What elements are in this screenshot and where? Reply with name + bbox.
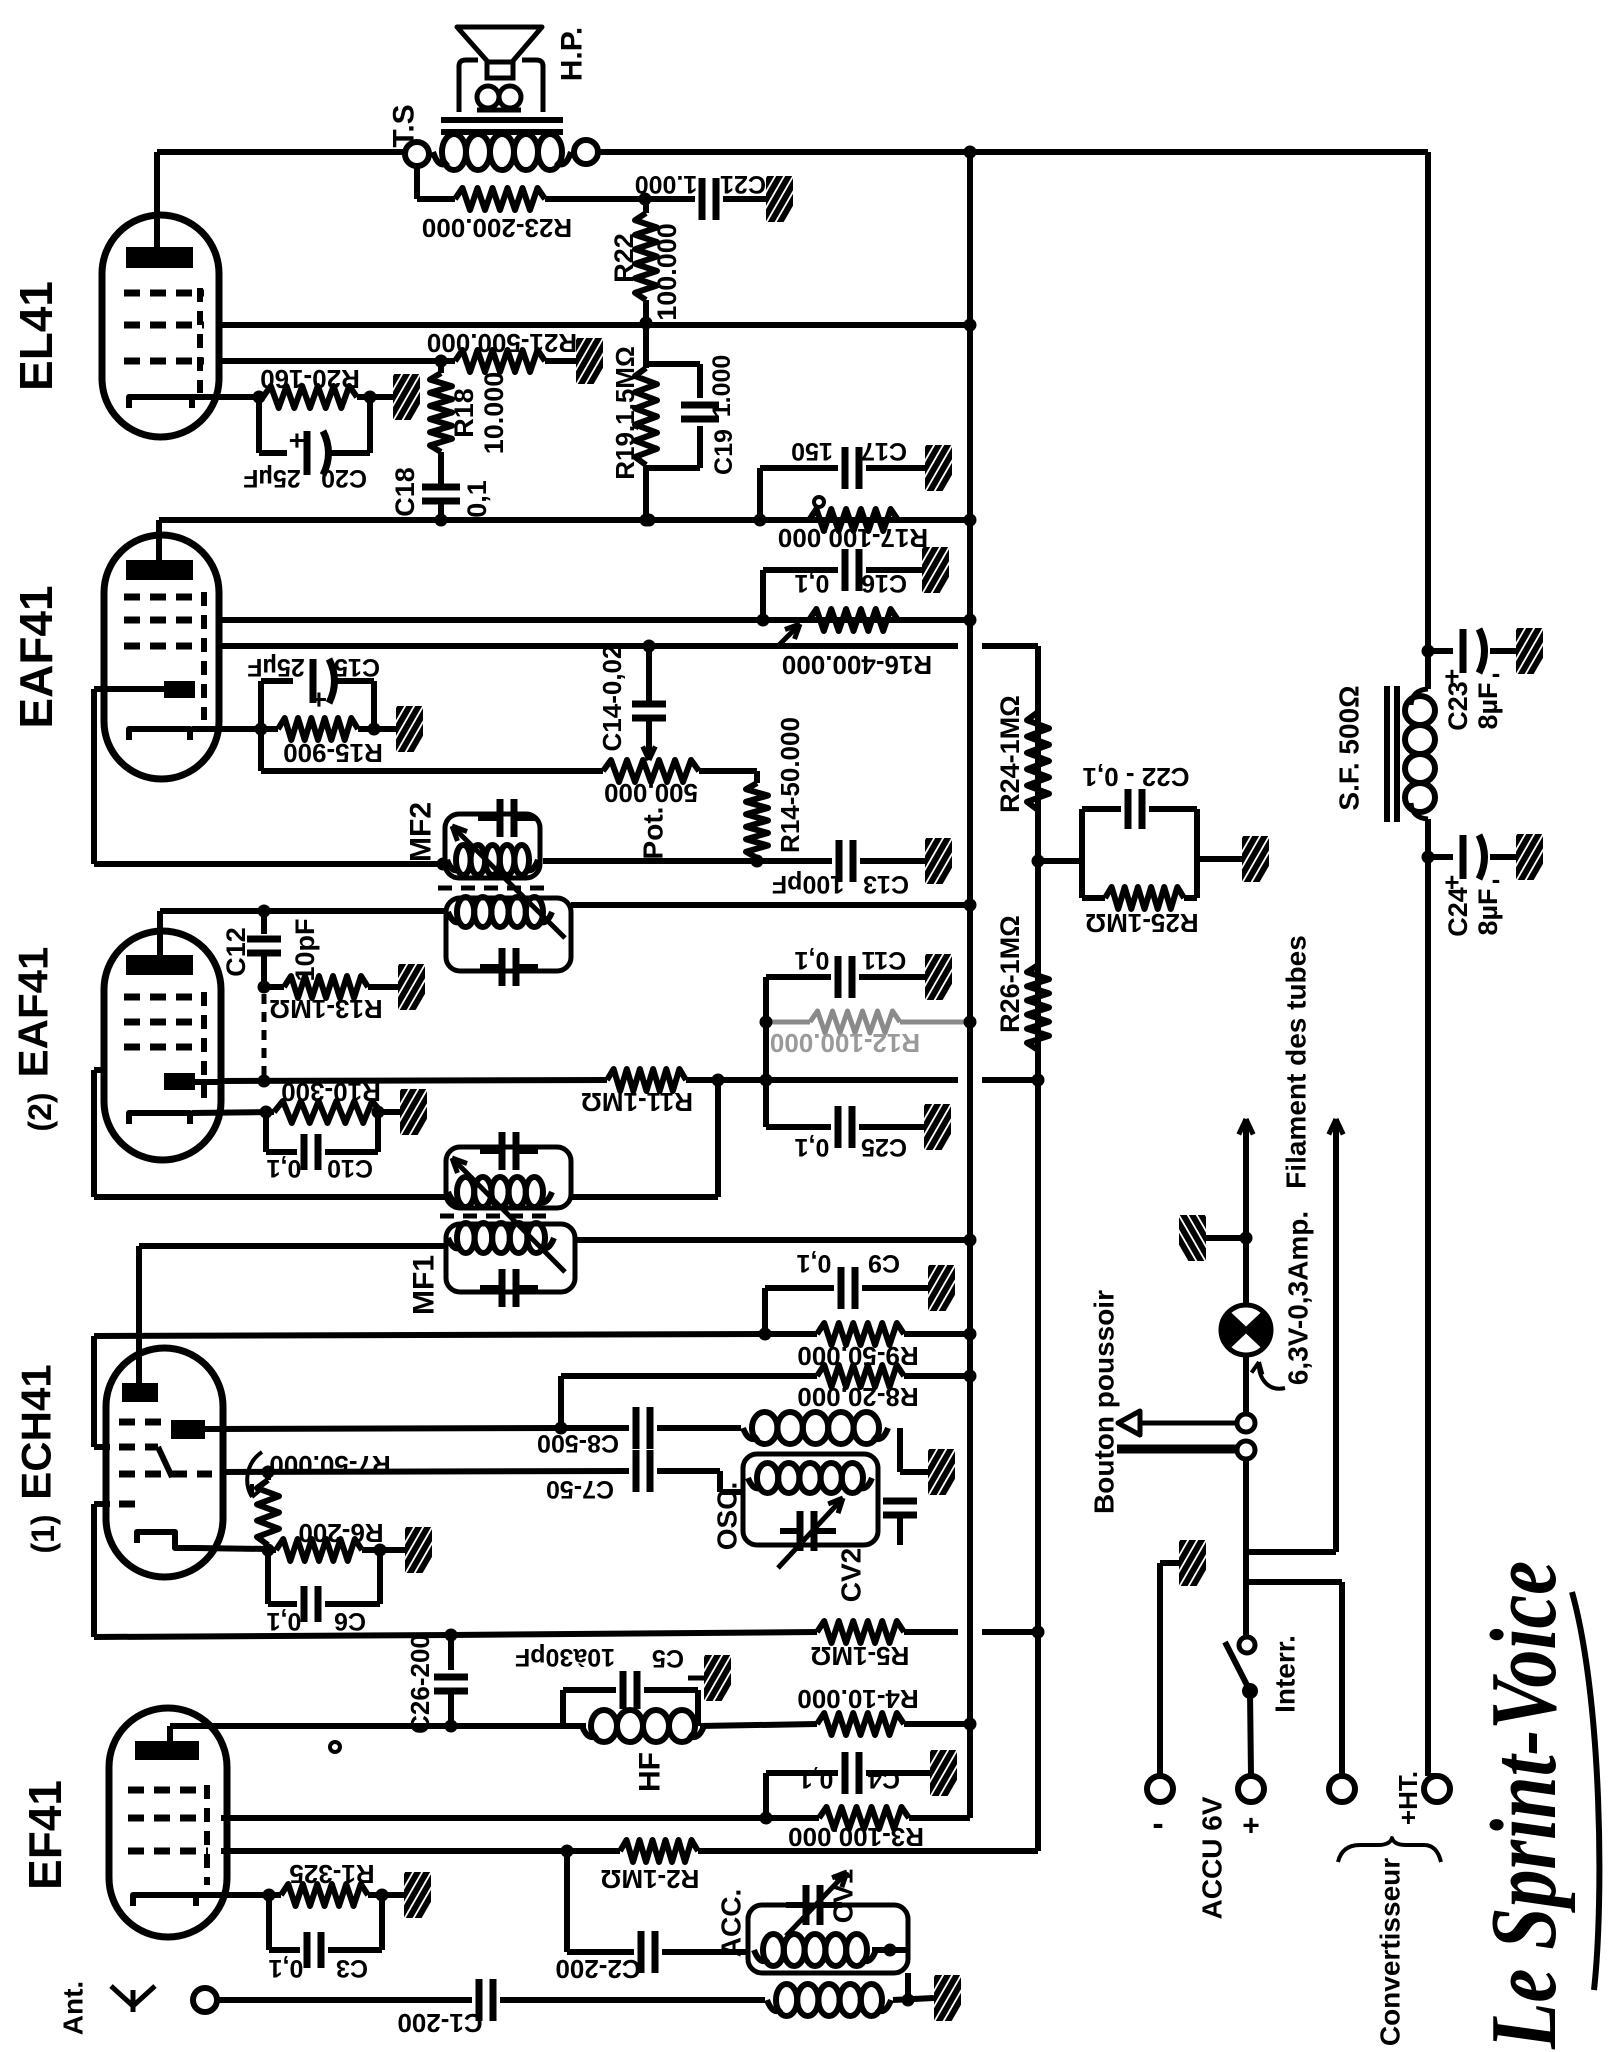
tube EF41 grid g1 [128, 1787, 208, 1794]
svg-text:R24-1MΩ: R24-1MΩ [995, 695, 1025, 813]
brace for converter terminals [1338, 1838, 1441, 1862]
svg-text:C19: C19 [710, 429, 738, 475]
ground for C9 [905, 1261, 971, 1313]
MF1 secondary coil [448, 1192, 461, 1202]
capacitor C11 [766, 974, 831, 980]
svg-text:0,1: 0,1 [462, 480, 492, 518]
resistor R26-1MΩ [1027, 965, 1049, 1050]
tube EAF41(2) anode bar [126, 955, 193, 975]
wire Pot right to R14 [699, 768, 757, 774]
resistor R10-300 [274, 1101, 381, 1123]
wire push button down [1243, 1459, 1249, 1582]
wire osc coil right down to ground and padder [897, 1428, 903, 1472]
svg-text:ACC.: ACC. [716, 1889, 747, 1957]
svg-text:+: + [289, 426, 305, 457]
svg-text:0,1: 0,1 [799, 1765, 834, 1793]
push button actuator [1140, 1421, 1236, 1426]
dashed drop from R13 node to diode line [262, 994, 267, 1078]
wire antenna to C1 [217, 1997, 472, 2003]
svg-text:C12: C12 [221, 927, 251, 977]
ground for R20 [370, 370, 436, 422]
wire EL41 g3 to R21 node [219, 358, 441, 364]
svg-text:H.P.: H.P. [556, 27, 589, 81]
MF2 secondary tuning cap [499, 948, 506, 986]
ground for R21 [553, 334, 619, 386]
wire MF1 secondary to EAF41(2) grid area [94, 1194, 446, 1200]
pilot lamp 6,3V [1243, 1238, 1249, 1306]
MF2 primary coil [447, 860, 460, 870]
svg-text:Ant.: Ant. [58, 1981, 89, 2035]
svg-text:R14-50.000: R14-50.000 [775, 717, 805, 853]
wire C7 to oscillator box [717, 1471, 723, 1492]
svg-text:0,1: 0,1 [795, 569, 830, 597]
tube EAF41 screen dashed [201, 592, 207, 720]
filament arrow 2 [1333, 1130, 1339, 1552]
svg-text:1.000: 1.000 [708, 355, 736, 418]
ground for R15 [373, 702, 439, 754]
svg-text:EL41: EL41 [10, 281, 62, 391]
MF2 dashed coupling line [438, 886, 548, 891]
resistor R1-325 [281, 1884, 368, 1906]
svg-text:Pot.: Pot. [638, 807, 669, 860]
capacitor C8-500 [561, 1425, 629, 1431]
capacitor C26-200 [448, 1635, 454, 1670]
resistor R14-50.000 vertical [746, 783, 768, 858]
capacitor C4 branch [763, 1773, 769, 1818]
svg-text:(2): (2) [22, 1092, 58, 1131]
tube EAF41(2) grid g1 [124, 994, 204, 1001]
electrolytic C24 [1422, 851, 1435, 864]
svg-text:C22 - 0,1: C22 - 0,1 [1083, 762, 1190, 792]
svg-text:C10: C10 [327, 1154, 373, 1182]
curved arrow at R7 [247, 1452, 262, 1497]
svg-text:C20: C20 [321, 464, 367, 492]
choke S.F. core [1384, 686, 1390, 822]
resistor R8-20.000 [561, 1373, 817, 1379]
svg-text:+: + [311, 685, 327, 716]
wire ECH41 screen to C8/R8 node [205, 1428, 561, 1429]
resistor R5-1MΩ [817, 1621, 904, 1643]
speaker voice coil [477, 86, 499, 108]
wire ECH41 cathode to R6 [196, 1548, 268, 1549]
svg-text:R22: R22 [609, 233, 639, 283]
tube EL41 grid g3 [124, 358, 204, 365]
tube ECH41 hexode anode bar [171, 1420, 205, 1439]
ground for C22 [1219, 832, 1285, 884]
speaker magnet square [487, 62, 513, 78]
wire ACC box down to antenna coil line [905, 1973, 911, 2000]
svg-text:OSC.: OSC. [712, 1482, 743, 1550]
wire up to R8 line [558, 1376, 564, 1428]
svg-text:R26-1MΩ: R26-1MΩ [995, 915, 1025, 1033]
MF2 secondary box [446, 898, 571, 971]
capacitor C18 [422, 484, 460, 491]
tube EAF41(2) screen dashed [201, 992, 207, 1105]
svg-text:C21: C21 [720, 170, 766, 198]
svg-text:EF41: EF41 [19, 1780, 71, 1890]
resistor R11-1MΩ [607, 1069, 686, 1091]
wire antenna coil to ground [893, 1998, 934, 2000]
svg-text:25µF: 25µF [243, 464, 300, 492]
switch Interr. [1243, 1582, 1249, 1637]
MF2 primary box [445, 814, 540, 878]
tube EAF41 cathode [129, 729, 190, 740]
capacitor C9 branch [762, 1288, 768, 1334]
svg-text:0,1: 0,1 [795, 946, 830, 974]
capacitor C22-0,1 [1125, 789, 1132, 829]
MF1 secondary box [446, 1147, 571, 1208]
svg-text:0,1: 0,1 [267, 1154, 302, 1182]
terminal converter LT [1329, 1776, 1355, 1802]
wire AVC junction to C22 box [1038, 858, 1082, 864]
tube ECH41 grid row3 [119, 1471, 212, 1478]
svg-text:8µF: 8µF [1473, 888, 1503, 935]
tube EAF41(2) grid g3 [124, 1044, 204, 1051]
svg-text:R10-300: R10-300 [281, 1077, 381, 1107]
svg-text:(1): (1) [25, 1514, 61, 1553]
tube EF41 grid g2 [128, 1815, 208, 1822]
MF1 primary coil [448, 1238, 461, 1248]
B+ rail bottom corner joins R3 [967, 152, 973, 1818]
svg-text:R19,1,5MΩ: R19,1,5MΩ [610, 346, 640, 480]
wire down from T.S. left to R23 [414, 166, 420, 199]
wire to converter terminal [1246, 1579, 1342, 1585]
svg-text:R21-500.000: R21-500.000 [427, 328, 577, 358]
svg-text:S.F. 500Ω: S.F. 500Ω [1334, 685, 1365, 810]
terminal ACCU minus [1147, 1776, 1173, 1802]
resistor R16-400.000 [809, 609, 898, 631]
tube EAF41(2) anode lead [157, 911, 163, 955]
AVC arrow near R16 [778, 624, 800, 646]
resistor R13-1MΩ [264, 984, 284, 990]
svg-text:C13: C13 [863, 870, 909, 898]
wire EL41 g2 line to B+ rail [219, 322, 970, 328]
tube ECH41 anode lead to MF1 [136, 1246, 142, 1383]
tube EAF41 anode bar [126, 560, 193, 580]
oscillator tank box OSC. [743, 1454, 878, 1545]
tube EL41 anode lead [154, 152, 160, 247]
electrolytic C20 25µF loop [256, 397, 262, 453]
capacitor C2-200 branch [564, 1851, 570, 1952]
svg-text:R12-100.000: R12-100.000 [770, 1028, 920, 1058]
electrolytic C15 25µF loop [258, 681, 264, 729]
resistor R7 vertical [265, 1472, 271, 1480]
tube EAF41 grid g1 [124, 594, 204, 601]
potentiometer Pot 500.000 [603, 760, 699, 782]
svg-text:R6-200: R6-200 [298, 1518, 383, 1548]
filament arrow 1 [1243, 1130, 1249, 1238]
svg-text:CV2: CV2 [836, 1548, 867, 1602]
resistor R2-1MΩ [620, 1840, 698, 1862]
svg-text:R2-1MΩ: R2-1MΩ [601, 1864, 700, 1894]
svg-text:10pF: 10pF [290, 918, 320, 981]
tube ECH41 glass envelope [106, 1348, 223, 1577]
ground for C16 [899, 543, 965, 595]
terminal left of T.S. [405, 142, 429, 166]
tube EL41 glass envelope [102, 215, 219, 437]
svg-text:C6: C6 [334, 1607, 366, 1635]
terminal right of T.S. [574, 140, 598, 164]
capacitor C11 branch vertical [763, 977, 769, 1127]
terminal ACCU plus [1238, 1776, 1264, 1802]
svg-text:C16: C16 [861, 569, 907, 597]
svg-text:+: + [1242, 1810, 1260, 1843]
wire junction down to MF1 primary [715, 1080, 721, 1197]
wire triode anode line R9 [91, 1336, 97, 1447]
transformer T.S. primary coil [433, 152, 448, 164]
svg-text:C15: C15 [334, 653, 380, 681]
MF1 primary box [446, 1224, 575, 1292]
svg-text:-: - [1152, 1805, 1163, 1843]
small circle near R17 [814, 497, 824, 507]
ground for R13 [375, 960, 441, 1012]
MF1 secondary tuning cap [499, 1132, 506, 1170]
tuned circuit ACC box [748, 1905, 908, 1973]
wire EAF41 g2 to R16 line [219, 617, 970, 623]
tube EAF41 diode plate [164, 681, 195, 698]
svg-text:10à30pF: 10à30pF [515, 1643, 615, 1671]
svg-text:R18: R18 [449, 388, 479, 438]
svg-text:EAF41: EAF41 [10, 947, 57, 1078]
wire EAF41 cathode to R15 [192, 726, 278, 732]
antenna symbol [131, 1990, 136, 2012]
svg-text:Filament des tubes: Filament des tubes [1281, 935, 1312, 1189]
HF coil [563, 1723, 586, 1729]
svg-text:R23-200.000: R23-200.000 [422, 213, 572, 243]
svg-text:C26-200: C26-200 [405, 1634, 435, 1734]
wire R5 line [94, 1635, 451, 1637]
wire to filament return arrow [1246, 1549, 1336, 1555]
resistor R6-200 [268, 1547, 276, 1553]
AVC bus vertical [1035, 646, 1041, 1851]
ground for C11 [902, 950, 968, 1002]
svg-text:C5: C5 [652, 1644, 684, 1672]
HT rail right edge [1425, 152, 1431, 689]
svg-text:C4: C4 [868, 1765, 900, 1793]
ground for filament line [1206, 1235, 1246, 1241]
wire C22 box to ground [1197, 856, 1242, 862]
svg-text:150: 150 [791, 437, 833, 465]
capacitor C16 branch [760, 570, 766, 620]
battery minus lead and ground [1157, 1563, 1163, 1776]
oscillator tank coil [748, 1478, 762, 1488]
tube EAF41(2) cathode [129, 1113, 190, 1124]
tube EL41 anode bar [126, 247, 193, 268]
ground for oscillator [905, 1445, 971, 1497]
resistor R24-1MΩ [1027, 712, 1049, 810]
tube EAF41 grid g2 [124, 617, 204, 624]
capacitor C1-200 [476, 1979, 483, 2021]
MF2 primary tuning cap [497, 799, 504, 837]
svg-text:0,1: 0,1 [797, 1249, 832, 1277]
resistor R20-160 [263, 386, 357, 408]
small circle near EF41 [330, 1742, 340, 1752]
capacitor C7-50 [633, 1450, 640, 1492]
svg-text:C11: C11 [862, 946, 907, 974]
svg-text:8µF: 8µF [1473, 682, 1503, 729]
ground for R10 [377, 1085, 443, 1137]
MF2 secondary coil [448, 912, 461, 922]
tube EAF41(2) grid g2 [124, 1019, 204, 1026]
svg-text:MF2: MF2 [405, 802, 438, 862]
electrolytic C23 [1422, 645, 1435, 658]
wire R11 line to AVC bus with crossover break [982, 1077, 1038, 1083]
choke S.F. winding [1405, 696, 1435, 725]
svg-text:C2-200: C2-200 [555, 1954, 640, 1984]
svg-text:10.000: 10.000 [479, 372, 509, 455]
ground for C4 [907, 1746, 973, 1798]
svg-text:C24: C24 [1443, 887, 1473, 937]
tube EF41 anode lead [167, 1726, 173, 1741]
wire EAF41(2) diode to R11 [195, 1079, 221, 1085]
ACC coil [754, 1950, 768, 1961]
variable capacitor CV1 [803, 1885, 810, 1925]
tube EAF41 grid g3 [124, 643, 204, 650]
wire EAF41(2) cathode to R10 [192, 1112, 274, 1113]
wire EL41 cathode to R20 [192, 394, 263, 400]
tube ECH41 triode anode bar [122, 1383, 158, 1402]
svg-text:R20-160: R20-160 [260, 364, 360, 394]
ground for R6 [382, 1523, 448, 1575]
tube EL41 grid g2 [124, 322, 204, 329]
resistor R3-100.000 [819, 1807, 909, 1829]
tube EL41 grid g1 [124, 290, 204, 297]
svg-text:C14-0,02: C14-0,02 [597, 645, 627, 752]
wire EF41 g1 to R2 [221, 1848, 620, 1854]
tube EF41 cathode [133, 1895, 196, 1906]
wire EL41 anode to T.S. left terminal [157, 149, 405, 155]
svg-text:Bouton poussoir: Bouton poussoir [1089, 1290, 1120, 1514]
transformer T.S. core [441, 117, 563, 123]
wire MF2 secondary to B+ rail [571, 902, 970, 908]
svg-text:C3: C3 [336, 1954, 368, 1982]
oscillator feedback coil [743, 1428, 758, 1439]
tube EL41 beam plate dashed [197, 288, 203, 393]
ground for C23 [1493, 624, 1559, 676]
resistor R15-900 [278, 718, 358, 740]
speaker H.P. cone [457, 27, 542, 62]
svg-text:R25-1MΩ: R25-1MΩ [1085, 908, 1198, 938]
ground for antenna coil [911, 1971, 977, 2023]
svg-text:C1-200: C1-200 [397, 2008, 482, 2038]
svg-text:Convertisseur: Convertisseur [1375, 1858, 1406, 2046]
resistor R22 vertical [643, 199, 649, 213]
resistor R23-200.000 [455, 188, 545, 210]
tube EAF41(2) diode plate [164, 1073, 195, 1090]
svg-text:100.000: 100.000 [652, 223, 682, 321]
tube EAF41 glass envelope [104, 535, 219, 779]
svg-text:Interr.: Interr. [1270, 1635, 1301, 1713]
svg-text:C7-50: C7-50 [546, 1475, 614, 1503]
push button lever [1117, 1445, 1236, 1454]
capacitor C21 [645, 196, 695, 202]
tube EF41 anode bar [135, 1741, 199, 1760]
svg-text:C8-500: C8-500 [537, 1429, 619, 1457]
MF1 tuning arrow [452, 1158, 565, 1272]
wire EAF41 diode to MF2 secondary [94, 686, 164, 692]
MF1 dashed coupling line [440, 1214, 550, 1219]
capacitor C13 [836, 840, 843, 882]
tube ECH41 grid row1 [119, 1419, 166, 1426]
wire T.S. right terminal to HT corner [598, 149, 1428, 155]
svg-text:0,1: 0,1 [269, 1954, 304, 1982]
svg-text:R8-20.000: R8-20.000 [797, 1382, 918, 1412]
wire EAF41 g3 to AVC bus with break at B+ rail [219, 643, 958, 649]
wire ECH41 left grid to R5 line [91, 1504, 97, 1637]
arrow of potentiometer wiper from C14 [646, 646, 652, 704]
svg-text:ACCU 6V: ACCU 6V [1197, 1796, 1228, 1919]
curved arrow to lamp [1259, 1362, 1285, 1389]
capacitor C25 [766, 1124, 831, 1130]
ground for R1 [381, 1868, 447, 1920]
ground for C24 [1493, 830, 1559, 882]
resistor R17-100.000 [809, 509, 898, 531]
oscillator padding capacitor [883, 1498, 917, 1505]
capacitor C6 loop [265, 1550, 271, 1604]
resistor R19 1,5M vertical [643, 325, 649, 368]
wire cathode node down to Pot line [258, 729, 264, 771]
svg-text:R11-1MΩ: R11-1MΩ [581, 1087, 693, 1117]
capacitor C10 loop [263, 1112, 269, 1152]
svg-text:HF: HF [634, 1752, 667, 1792]
wire EF41 cathode to R1 [196, 1892, 281, 1898]
capacitor C17 branch [757, 468, 763, 520]
ground for C21 [743, 172, 809, 224]
tube EF41 glass envelope [109, 1708, 227, 1937]
ground for C5 [681, 1651, 747, 1703]
capacitor C12 branch [258, 905, 271, 918]
variable capacitor CV2 [797, 1511, 804, 1551]
svg-text:1.000: 1.000 [635, 170, 698, 198]
MF2 tuning arrow [452, 826, 565, 938]
resistor R25-1MΩ [1082, 895, 1105, 901]
svg-text:CV1: CV1 [828, 1869, 859, 1923]
ground for C13 [902, 834, 968, 886]
wire MF1 primary left to ECH41 anode [139, 1243, 446, 1249]
logo underline flourish [1572, 1592, 1599, 1990]
wire MF2 secondary top to C13 line [543, 858, 832, 864]
svg-text:500.000: 500.000 [604, 778, 698, 808]
junction AVC to C22 [1032, 855, 1045, 868]
svg-text:R5-1MΩ: R5-1MΩ [811, 1641, 910, 1671]
svg-text:C23: C23 [1443, 681, 1473, 731]
svg-text:C17: C17 [861, 437, 907, 465]
capacitor C19 loop [646, 361, 700, 367]
svg-text:R7-50.000: R7-50.000 [269, 1450, 390, 1480]
resistor R4-10.000 [817, 1713, 904, 1735]
svg-text:+HT.: +HT. [1393, 1771, 1423, 1825]
svg-text:R3-100.000: R3-100.000 [788, 1822, 924, 1852]
terminal +HT [1424, 1776, 1450, 1802]
wire EAF41(2) anode to MF2 primary [160, 908, 446, 914]
wire ECH41 triode grid line [223, 1471, 629, 1472]
tube EF41 screen dashed [204, 1785, 210, 1885]
resistor R21-500.000 [455, 350, 545, 372]
resistor R9-50.000 [817, 1323, 904, 1345]
svg-text:100pF: 100pF [772, 870, 844, 898]
svg-text:0,1: 0,1 [267, 1607, 302, 1635]
svg-text:EAF41: EAF41 [10, 585, 62, 728]
svg-text:0,1: 0,1 [795, 1133, 830, 1161]
MF1 primary tuning cap [499, 1269, 506, 1307]
ground for C17 [902, 441, 968, 493]
tube EAF41 anode lead [156, 520, 162, 560]
tube EAF41(2) glass envelope [104, 931, 221, 1160]
capacitor C3 loop [266, 1895, 272, 1950]
svg-text:C9: C9 [868, 1249, 900, 1277]
speaker frame [459, 60, 543, 112]
svg-text:C25: C25 [861, 1133, 907, 1161]
